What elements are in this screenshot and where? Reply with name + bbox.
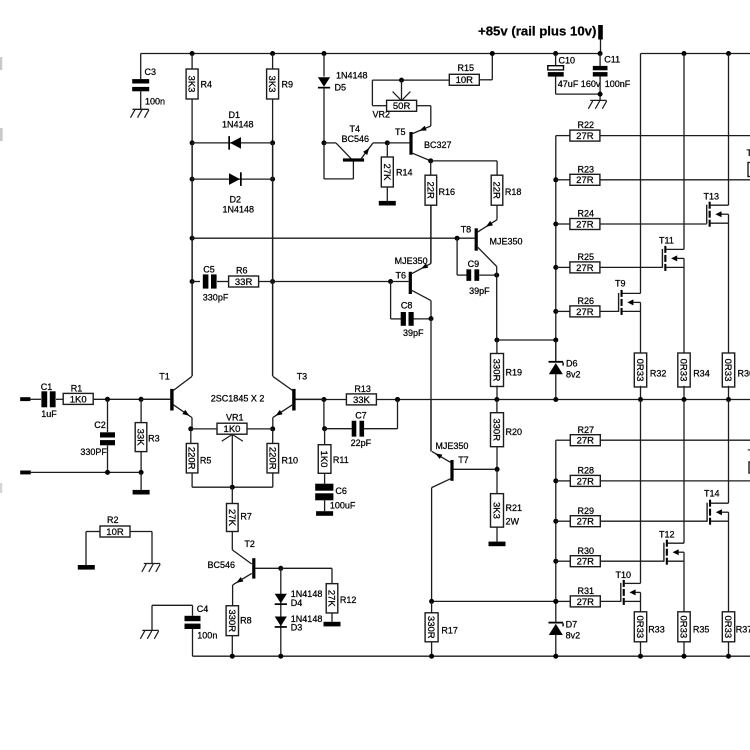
resistor R8: [226, 606, 238, 636]
svg-text:VR1: VR1: [226, 413, 244, 423]
svg-text:1uF: 1uF: [41, 409, 57, 419]
svg-text:C1: C1: [41, 382, 53, 392]
svg-text:R12: R12: [340, 595, 357, 605]
resistor R30: [556, 560, 571, 562]
transistor T5: [387, 142, 409, 144]
svg-text:10R: 10R: [106, 527, 124, 538]
wire: [278, 566, 283, 571]
ground: [324, 622, 341, 627]
svg-text:10R: 10R: [456, 75, 474, 86]
svg-text:220R: 220R: [186, 447, 197, 470]
svg-text:330R: 330R: [226, 609, 237, 632]
svg-text:C8: C8: [401, 301, 413, 311]
svg-text:R9: R9: [282, 80, 294, 90]
svg-text:R15: R15: [458, 63, 475, 73]
svg-text:C3: C3: [145, 67, 157, 77]
svg-text:33R: 33R: [235, 277, 253, 288]
ground: [142, 629, 158, 631]
resistor R31: [556, 600, 571, 602]
resistor R35: [683, 552, 685, 612]
svg-text:D1: D1: [229, 110, 241, 120]
svg-text:R21: R21: [506, 503, 523, 513]
svg-text:C10: C10: [559, 55, 576, 65]
resistor R11: [324, 429, 326, 445]
svg-text:T8: T8: [461, 225, 472, 235]
transistor T4: [322, 140, 327, 145]
wire +85v rail: [141, 53, 601, 55]
resistor R28: [556, 480, 571, 482]
svg-text:MJE350: MJE350: [435, 441, 468, 451]
wire: [191, 143, 193, 376]
wire: [94, 398, 171, 400]
resistor R18: [491, 175, 503, 205]
node input return terminal: [20, 471, 31, 475]
wire bottom rail: [193, 655, 750, 657]
resistor R13: [346, 394, 376, 405]
svg-text:0R33: 0R33: [678, 615, 689, 638]
svg-text:27K: 27K: [381, 164, 392, 182]
resistor R14: [385, 140, 390, 145]
resistor R10: [272, 429, 274, 444]
svg-text:330R: 330R: [425, 616, 436, 639]
resistor R33: [640, 592, 642, 612]
node input terminal: [20, 397, 30, 401]
svg-text:D6: D6: [566, 359, 578, 369]
resistor R4: [190, 51, 195, 56]
svg-text:1K0: 1K0: [224, 424, 241, 435]
ground: [316, 511, 333, 516]
mosfet T13: [706, 205, 708, 224]
svg-text:C2: C2: [94, 420, 106, 430]
svg-text:3K3: 3K3: [186, 76, 197, 93]
ground: [489, 542, 506, 547]
resistor R26: [556, 310, 570, 312]
svg-text:100n: 100n: [197, 630, 217, 640]
zener diode D6: [555, 340, 557, 361]
svg-text:R1: R1: [71, 384, 83, 394]
ground: [133, 490, 150, 495]
svg-text:27R: 27R: [577, 597, 595, 608]
resistor R17: [431, 601, 433, 612]
svg-text:100nF: 100nF: [605, 79, 631, 89]
svg-text:R22: R22: [578, 120, 595, 130]
mosfet T9: [618, 293, 620, 312]
svg-text:330R: 330R: [491, 418, 502, 441]
svg-text:33K: 33K: [353, 395, 371, 406]
svg-text:8v2: 8v2: [566, 370, 581, 380]
resistor R16: [428, 158, 433, 163]
wire R31 to T7: [432, 600, 556, 602]
svg-text:R26: R26: [578, 296, 595, 306]
potentiometer VR2: [430, 106, 432, 126]
svg-text:1N4148: 1N4148: [222, 120, 254, 130]
svg-text:R17: R17: [441, 626, 458, 636]
svg-text:BC327: BC327: [424, 140, 452, 150]
svg-text:C6: C6: [335, 486, 347, 496]
svg-text:39pF: 39pF: [403, 328, 424, 338]
svg-text:MJE350: MJE350: [490, 237, 523, 247]
svg-text:330R: 330R: [491, 359, 502, 382]
mosfet T10: [620, 583, 622, 602]
resistor R32: [640, 302, 642, 354]
svg-text:2SC1845 X 2: 2SC1845 X 2: [211, 394, 265, 404]
svg-text:R8: R8: [240, 616, 252, 626]
diode D2: [190, 177, 195, 182]
svg-text:T12: T12: [659, 530, 675, 540]
svg-text:R27: R27: [578, 425, 595, 435]
svg-text:1N4148: 1N4148: [223, 205, 255, 215]
svg-text:R18: R18: [505, 187, 522, 197]
svg-text:100n: 100n: [145, 97, 165, 107]
svg-text:R3: R3: [148, 434, 160, 444]
svg-text:T1: T1: [747, 148, 750, 158]
diode D5: [322, 51, 327, 56]
svg-text:BC546: BC546: [342, 134, 370, 144]
svg-text:D5: D5: [335, 83, 347, 93]
wire drain bus T9: [640, 54, 642, 294]
wire: [31, 471, 141, 473]
svg-text:0R33: 0R33: [678, 359, 689, 382]
mosfet T12: [663, 543, 665, 562]
svg-text:0R33: 0R33: [722, 359, 733, 382]
svg-text:C11: C11: [604, 55, 620, 65]
resistor R12: [281, 567, 332, 569]
svg-text:R7: R7: [240, 512, 252, 522]
wire drain bus T14: [728, 400, 730, 504]
resistor R25: [556, 266, 570, 268]
svg-text:R6: R6: [236, 265, 248, 275]
svg-text:+85v (rail plus 10v): +85v (rail plus 10v): [478, 23, 596, 38]
diode D3: [275, 617, 287, 627]
svg-text:100uF: 100uF: [330, 501, 356, 511]
resistor R27: [556, 439, 571, 441]
wire: [430, 319, 432, 452]
svg-text:R36: R36: [738, 369, 750, 379]
svg-text:R30: R30: [578, 546, 595, 556]
resistor R22: [556, 135, 570, 137]
resistor R5: [190, 429, 192, 444]
capacitor C2: [107, 399, 109, 432]
ground: [133, 108, 149, 110]
svg-text:R34: R34: [693, 369, 710, 379]
svg-text:VR2: VR2: [373, 110, 391, 120]
svg-text:C7: C7: [355, 411, 367, 421]
resistor R1: [63, 393, 93, 404]
svg-text:R33: R33: [648, 625, 665, 635]
svg-text:D2: D2: [230, 195, 242, 205]
svg-text:2W: 2W: [506, 517, 520, 527]
wire output rail: [295, 399, 750, 401]
transistor T7: [430, 400, 432, 452]
wire drain bus T12: [683, 400, 685, 544]
svg-text:27R: 27R: [577, 557, 595, 568]
transistor T6: [409, 272, 412, 294]
svg-text:R5: R5: [200, 455, 212, 465]
svg-text:1N4148: 1N4148: [336, 71, 368, 81]
wire gate drive upper: [494, 338, 499, 343]
wire drain bus T11: [682, 51, 687, 56]
svg-text:R14: R14: [396, 168, 413, 178]
svg-text:47uF 160v: 47uF 160v: [558, 79, 601, 89]
svg-text:C9: C9: [468, 259, 480, 269]
svg-text:R23: R23: [578, 164, 595, 174]
svg-text:T1: T1: [159, 371, 170, 381]
svg-text:22R: 22R: [491, 181, 502, 199]
svg-text:T2: T2: [244, 539, 255, 549]
svg-text:27R: 27R: [576, 263, 594, 274]
wire: [272, 143, 274, 376]
svg-text:R24: R24: [578, 209, 595, 219]
resistor R7: [231, 487, 233, 503]
svg-text:T4: T4: [350, 124, 361, 134]
svg-text:33K: 33K: [135, 429, 146, 447]
wire: [431, 160, 497, 162]
transistor T1: [141, 398, 170, 400]
svg-text:330PF: 330PF: [80, 447, 107, 457]
svg-text:R20: R20: [506, 427, 523, 437]
resistor R29: [556, 520, 571, 522]
resistor R6: [229, 276, 259, 287]
svg-text:220R: 220R: [266, 447, 277, 470]
mosfet T14: [706, 503, 708, 522]
transistor T3: [296, 398, 324, 400]
svg-text:8v2: 8v2: [566, 631, 581, 641]
potentiometer VR1: [188, 426, 193, 431]
capacitor C3: [140, 54, 142, 80]
wire: [496, 267, 498, 341]
wire upper gate bus: [555, 136, 557, 362]
resistor R9: [270, 51, 275, 56]
svg-text:3K3: 3K3: [491, 502, 502, 519]
transistor T8: [475, 228, 478, 250]
svg-text:R11: R11: [333, 455, 349, 465]
svg-text:R35: R35: [693, 625, 710, 635]
svg-text:R37: R37: [736, 625, 750, 635]
wire: [140, 472, 142, 490]
diode D1: [190, 140, 195, 145]
resistor R23: [556, 179, 570, 181]
transistor T2: [232, 550, 251, 564]
svg-text:MJE350: MJE350: [395, 256, 428, 266]
resistor R24: [556, 223, 570, 225]
resistor R37: [728, 512, 730, 612]
wire right rail segment: [641, 53, 750, 55]
svg-text:T3: T3: [297, 371, 308, 381]
ground: [379, 201, 396, 206]
wire tail node: [192, 486, 273, 488]
svg-text:0R33: 0R33: [722, 615, 733, 638]
svg-text:D3: D3: [291, 623, 303, 633]
capacitor C10: [553, 51, 558, 56]
diode D4: [275, 594, 287, 604]
svg-text:T14: T14: [704, 489, 720, 499]
svg-text:R19: R19: [506, 368, 523, 378]
svg-text:R28: R28: [578, 466, 595, 476]
svg-text:BC546: BC546: [208, 560, 236, 570]
svg-text:R29: R29: [578, 506, 595, 516]
svg-text:27R: 27R: [576, 307, 594, 318]
capacitor C8: [390, 282, 392, 319]
svg-text:27R: 27R: [577, 476, 595, 487]
resistor R15: [449, 74, 479, 85]
svg-text:T9: T9: [615, 279, 626, 289]
svg-text:C4: C4: [197, 604, 209, 614]
wire: [270, 279, 275, 284]
ground: [78, 565, 95, 570]
svg-text:27R: 27R: [577, 436, 595, 447]
capacitor C9: [456, 238, 458, 275]
svg-text:R16: R16: [439, 187, 456, 197]
resistor R36: [728, 214, 730, 354]
svg-text:27R: 27R: [576, 175, 594, 186]
resistor R34: [683, 258, 685, 354]
capacitor C6: [315, 484, 333, 491]
resistor R19: [496, 340, 498, 354]
svg-text:330pF: 330pF: [203, 293, 229, 303]
ground: [144, 563, 160, 565]
svg-text:27R: 27R: [577, 517, 595, 528]
mosfet T11: [661, 249, 663, 268]
resistor R20: [496, 400, 498, 413]
svg-text:T10: T10: [616, 570, 632, 580]
svg-text:0R33: 0R33: [634, 615, 645, 638]
svg-text:3K3: 3K3: [266, 76, 277, 93]
svg-text:39pF: 39pF: [469, 286, 490, 296]
svg-text:1K0: 1K0: [318, 451, 329, 468]
svg-text:R31: R31: [578, 586, 595, 596]
wire T8 base line: [190, 236, 195, 241]
resistor R21: [496, 469, 498, 493]
svg-text:D7: D7: [566, 620, 578, 630]
svg-text:D4: D4: [291, 598, 303, 608]
ground: [590, 99, 606, 101]
capacitor C4: [152, 604, 193, 606]
capacitor C11: [598, 51, 603, 56]
svg-text:T6: T6: [396, 270, 407, 280]
svg-text:R13: R13: [354, 384, 371, 394]
capacitor C7: [323, 399, 325, 428]
node +85v terminal: [598, 25, 603, 40]
svg-text:R2: R2: [107, 515, 119, 525]
resistor R3: [140, 399, 142, 422]
svg-text:R10: R10: [282, 455, 299, 465]
wire lower gate bus: [555, 440, 557, 622]
svg-text:27R: 27R: [576, 219, 594, 230]
resistor R2: [100, 526, 130, 537]
svg-text:R25: R25: [578, 252, 595, 262]
svg-text:27R: 27R: [576, 131, 594, 142]
wire drain bus T13: [726, 51, 731, 56]
svg-text:R32: R32: [650, 369, 667, 379]
svg-text:1K0: 1K0: [70, 394, 87, 405]
svg-text:27K: 27K: [226, 509, 237, 527]
svg-text:50R: 50R: [393, 101, 411, 112]
svg-text:22pF: 22pF: [351, 438, 372, 448]
svg-text:27K: 27K: [326, 590, 337, 608]
capacitor C1: [30, 398, 41, 400]
svg-text:0R33: 0R33: [634, 359, 645, 382]
svg-text:T11: T11: [659, 236, 674, 246]
svg-text:T7: T7: [458, 455, 469, 465]
wire drain bus T10: [640, 400, 642, 584]
svg-text:22R: 22R: [424, 181, 435, 199]
capacitor C5: [190, 279, 195, 284]
svg-text:C5: C5: [203, 265, 215, 275]
svg-text:R4: R4: [201, 80, 213, 90]
svg-text:T13: T13: [704, 192, 720, 202]
svg-text:T5: T5: [395, 127, 406, 137]
zener diode D7: [549, 622, 564, 624]
